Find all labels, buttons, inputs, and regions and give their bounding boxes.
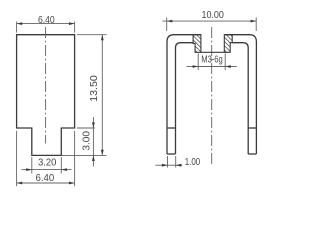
- dimension 1.00 bottom left: extension lines: [167, 156, 169, 168]
- dimension 3.00: upper arrow stem (outside, pointing down): [92, 117, 94, 128]
- left view body outline: [17, 35, 75, 156]
- dimension 1.00: right arrow (outside, pointing left): [176, 164, 183, 166]
- dimension 6.40 bottom: dimension line: [17, 182, 75, 184]
- dimension 3.20: right arrow (outside, pointing left): [61, 169, 71, 171]
- dimension 6.40 bottom: right arrow: [69, 182, 75, 185]
- dimension 10.00: right arrow: [251, 20, 257, 23]
- threaded insert left section block (hatched): [193, 35, 201, 53]
- dimension 6.40 top: extension lines: [16, 21, 18, 32]
- dimension 6.40 top: right arrow: [69, 22, 75, 25]
- right view left leg divider line: [167, 127, 176, 129]
- dimension M3-6g: extension lines: [197, 53, 199, 70]
- right view inner outline left half: [176, 43, 194, 154]
- dimension 3.00 right: top extension line: [77, 127, 95, 129]
- svg-text:10.00: 10.00: [201, 10, 224, 21]
- svg-text:M3-6g: M3-6g: [201, 54, 223, 65]
- dimension 13.50: top arrow: [101, 35, 104, 41]
- threaded insert right section block (hatched): [224, 35, 232, 53]
- threaded insert bottom edge across hole: [201, 51, 224, 53]
- svg-text:3.20: 3.20: [38, 158, 57, 169]
- right view left leg bottom edge: [167, 153, 176, 155]
- right view outer outline left half: [167, 35, 201, 154]
- dimension 10.00: dimension line: [162, 20, 256, 22]
- left view vertical centerline: [45, 27, 47, 144]
- dimension 13.50 right: top extension line: [77, 34, 107, 36]
- dimension 6.40 top: dimension line: [17, 23, 75, 25]
- dimension 13.50: bottom arrow: [101, 150, 104, 156]
- dimension 1.00: left arrow (outside, pointing right): [155, 164, 167, 166]
- right view right leg divider line: [248, 127, 256, 129]
- dimension 3.20: left arrow (outside, pointing right): [22, 169, 32, 171]
- right view vertical centerline: [211, 27, 213, 165]
- dimension 3.00: lower arrow stem (outside, pointing up): [92, 155, 94, 166]
- dimension 6.40 bottom: extension lines: [16, 131, 18, 186]
- dimension 3.20 bottom: extension lines: [31, 157, 33, 173]
- dimension 6.40 bottom: left arrow: [17, 182, 23, 185]
- dimension 10.00 top: extension lines: [166, 17, 168, 31]
- dimension M3-6g: left arrow (outside, pointing right): [187, 66, 199, 68]
- dimension 10.00: left arrow: [167, 20, 173, 23]
- right view right leg bottom edge: [248, 153, 256, 155]
- svg-text:1.00: 1.00: [185, 157, 201, 168]
- dimension 13.50 / 3.00 shared bottom extension line: [61, 154, 106, 156]
- svg-text:6.40: 6.40: [38, 15, 55, 26]
- svg-text:6.40: 6.40: [36, 173, 55, 184]
- right view outer outline right half: [224, 35, 256, 154]
- dimension M3-6g: right arrow (outside, pointing left): [225, 66, 237, 68]
- svg-text:13.50: 13.50: [89, 75, 100, 102]
- svg-text:3.00: 3.00: [81, 131, 92, 151]
- right view inner outline right half: [232, 43, 248, 154]
- dimension 13.50 right: dimension line: [101, 35, 103, 156]
- dimension 6.40 top: left arrow: [17, 22, 23, 25]
